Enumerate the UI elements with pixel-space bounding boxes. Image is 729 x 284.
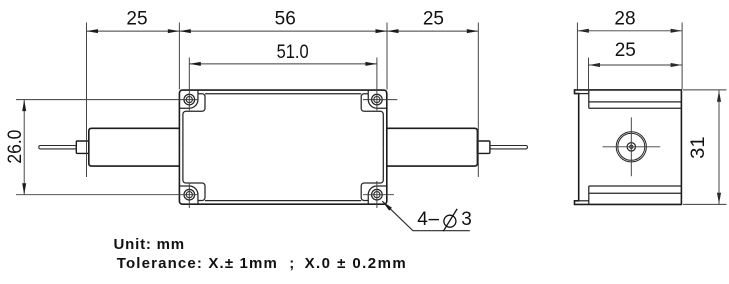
svg-text:31: 31: [688, 136, 709, 159]
svg-text:26.0: 26.0: [5, 130, 26, 164]
svg-text:25: 25: [615, 40, 636, 61]
svg-text:25: 25: [423, 9, 444, 30]
svg-text:3: 3: [461, 209, 472, 230]
svg-text:4: 4: [417, 209, 428, 230]
svg-text:56: 56: [275, 9, 296, 30]
svg-text:51.0: 51.0: [277, 42, 309, 63]
svg-text:25: 25: [126, 9, 147, 30]
svg-text:28: 28: [614, 8, 635, 29]
